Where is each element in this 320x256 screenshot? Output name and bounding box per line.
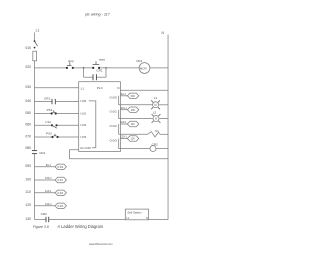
wire rung 090 [35,166,56,168]
svg-text:O:0/0: O:0/0 [57,166,64,169]
wire lamp L2 to N rail [160,118,169,120]
svg-text:LS1: LS1 [46,120,52,124]
svg-text:L2: L2 [153,111,157,115]
wire AC COM return to N rail [70,150,169,159]
pressure switch PS2 [46,131,59,138]
svg-text:110: 110 [25,190,31,194]
svg-text:O:0/2: O:0/2 [110,124,118,128]
svg-text:100-1: 100-1 [45,176,52,180]
wire flag oval (to I:0/0) [55,164,66,169]
svg-text:start: start [99,57,105,61]
svg-text:CR2: CR2 [41,212,47,216]
svg-text:100-1: 100-1 [120,106,127,110]
wire right rail [167,35,169,220]
wire rung 040 left [35,101,53,103]
wire rung 030 (L1 to PLC) [35,87,79,89]
svg-text:Drill Station: Drill Station [128,211,142,215]
wire lamp L1 to N rail [159,104,168,106]
svg-text:R: R [155,103,158,107]
wire rung 130 to drill station [49,219,126,221]
svg-text:120-1: 120-1 [120,135,127,139]
svg-text:070: 070 [25,134,31,138]
svg-text:I:0/2: I:0/2 [80,123,86,127]
disconnect switch S (line 010) [34,40,38,48]
svg-text:PS1: PS1 [47,108,53,112]
svg-text:I:0/3: I:0/3 [80,135,86,139]
wire left rail [34,61,36,151]
wire rung 110 [35,192,56,194]
svg-text:030: 030 [25,85,31,89]
svg-text:AC COM: AC COM [80,146,92,150]
fuse F1 [33,51,37,61]
svg-text:110: 110 [131,123,136,126]
svg-text:CR1: CR1 [96,69,102,73]
wire flag oval (to I:0/2) [55,190,66,195]
wire jog O:0/0 down [119,96,153,105]
relay coil CR1 (MCR) [136,59,150,73]
svg-text:090: 090 [131,95,136,98]
svg-text:L1: L1 [81,86,85,90]
svg-text:90-1: 90-1 [121,92,127,96]
wire rung 070 right [59,136,79,138]
svg-text:CR1: CR1 [44,97,50,101]
contact CR1 (input, NO) [44,97,55,105]
wire flag oval (to I:0/3) [55,203,66,208]
svg-text:O:0/3: O:0/3 [110,138,118,142]
svg-text:PLC: PLC [97,86,104,90]
solenoid S1 [148,129,160,137]
wire rung 100 [35,179,56,181]
wire flag oval (120) [127,136,138,141]
wire rung 050 left [35,113,51,115]
svg-text:120: 120 [131,138,136,141]
svg-text:CR1: CR1 [136,59,142,63]
wire coil CR2 to N rail [156,148,168,150]
svg-text:010: 010 [25,46,31,50]
wire rung 060 left [35,124,52,126]
relay coil CR2 [150,142,158,151]
svg-text:100: 100 [25,177,31,181]
svg-text:L1: L1 [126,216,129,220]
output row O:0/2 stub wire [120,123,127,125]
svg-text:A Ladder Wiring Diagram: A Ladder Wiring Diagram [58,224,104,229]
svg-text:O:0/1: O:0/1 [110,110,118,114]
limit switch LS1 [46,120,58,128]
svg-text:050: 050 [25,111,31,115]
wire rung 070 left [35,136,52,138]
wire flag oval (100) [127,107,138,112]
svg-text:O:0/1: O:0/1 [57,179,64,182]
wire rung 040 right [55,101,78,103]
drill station box [125,209,148,220]
contact CR1 (MCR contact in rail) [32,151,46,155]
wire rung 060 right [58,124,79,126]
wire flag oval (090) [127,93,138,98]
svg-text:G: G [155,117,158,121]
svg-text:L1: L1 [36,29,40,33]
svg-text:100: 100 [131,109,136,112]
wire jog O:0/2 down [119,124,148,134]
svg-text:120: 120 [25,203,31,207]
svg-text:110-1: 110-1 [120,120,127,124]
svg-text:040: 040 [25,99,31,103]
wire seal-in branch right drop [105,68,107,77]
wire rung 050 right [57,113,79,115]
wire flag oval (110) [127,121,138,126]
svg-text:120-1: 120-1 [45,202,52,206]
svg-text:I:0/0: I:0/0 [80,99,86,103]
svg-text:CR1: CR1 [39,151,45,155]
svg-text:90-1: 90-1 [46,163,52,167]
contact CR2 (NO) [41,212,49,222]
svg-text:plc wiring - 117: plc wiring - 117 [84,12,110,16]
svg-text:130: 130 [25,217,31,221]
pilot light L1 (red) [151,96,160,109]
junction dot [83,67,85,69]
wire rung 130 left [35,219,47,221]
output row O:0/1 stub wire [120,109,127,111]
svg-text:110-1: 110-1 [45,189,52,193]
svg-text:PS2: PS2 [46,131,52,135]
wire PLC N terminal to N rail [120,89,168,91]
svg-text:N: N [146,216,148,220]
wire left rail lower [34,154,36,220]
svg-text:L1: L1 [154,96,158,100]
svg-text:MCR: MCR [140,66,148,70]
wire rung 020 to N rail [150,67,168,69]
wire rung 020 left [35,67,67,69]
svg-text:I:0/1: I:0/1 [80,111,86,115]
wire jog O:0/3 down [119,139,150,149]
svg-text:N: N [162,31,165,35]
PLC internal common bracket wire [89,101,96,148]
svg-text:090: 090 [25,164,31,168]
wire rung 120 [35,205,56,207]
wire L1 drop [34,33,36,41]
svg-text:Figure 3.9: Figure 3.9 [33,225,49,229]
svg-text:www.PAControl.com: www.PAControl.com [89,242,112,246]
svg-text:O:0/3: O:0/3 [57,205,64,208]
wire seal-in branch left drop [83,68,85,77]
pushbutton stop (NC) [66,59,74,69]
PLC box [79,82,121,152]
output row O:0/3 stub wire [120,138,127,140]
svg-text:O:0/0: O:0/0 [110,96,118,100]
svg-text:020: 020 [25,65,31,69]
wire solenoid to N rail [160,133,168,135]
svg-text:080: 080 [25,146,31,150]
svg-text:060: 060 [25,123,31,127]
svg-text:stop: stop [68,59,74,63]
wire drill station to N rail [149,219,168,221]
wire flag oval (to I:0/1) [55,177,66,182]
contact CR1 (seal-in, NO) [84,69,106,81]
wire rung 020 right [100,67,139,69]
output row O:0/0 stub wire [120,95,127,97]
pilot light L2 (green) [152,111,161,123]
svg-text:O:0/2: O:0/2 [57,192,64,195]
wire rung 020 mid [74,67,92,69]
wire jog O:0/1 down [119,110,153,119]
pressure switch PS1 [47,108,57,115]
pushbutton start (NO) [92,57,105,69]
svg-text:N: N [117,86,119,90]
